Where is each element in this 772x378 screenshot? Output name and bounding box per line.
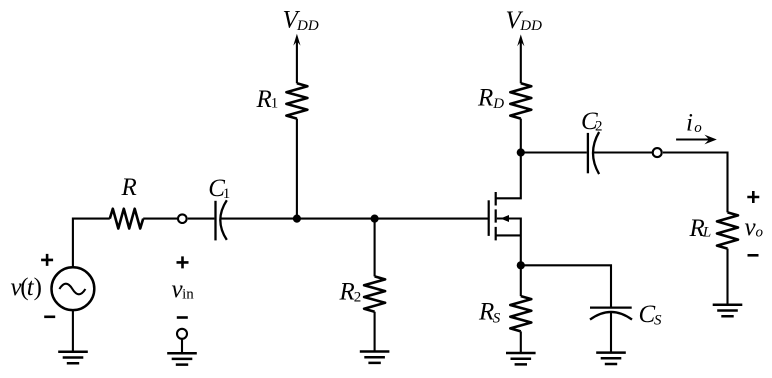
arrowhead VDD left (293, 34, 300, 46)
source v(t) sine (59, 284, 85, 295)
wire: source node to RS (520, 265, 522, 296)
svg-text:DD: DD (519, 18, 542, 34)
wire: source node to CS (521, 265, 611, 306)
wire: CS to ground (610, 313, 612, 353)
wire: R2 to ground (374, 312, 376, 352)
wire: VDD arrow to RD (520, 40, 522, 83)
node: input open terminal (178, 214, 187, 223)
node B junction dot (371, 215, 379, 223)
wire: R1 to node A (296, 119, 298, 219)
ground: under CS (596, 353, 626, 364)
svg-text:): ) (34, 274, 42, 301)
svg-text:o: o (694, 120, 702, 136)
plus sign at vin (177, 256, 189, 268)
svg-text:D: D (492, 96, 504, 112)
wire: vin terminal stem (181, 339, 183, 353)
wire: C2 to output terminal (592, 151, 652, 153)
svg-text:S: S (493, 311, 501, 327)
svg-text:R: R (477, 85, 493, 112)
wire: terminal to C1 (188, 218, 215, 220)
svg-text:1: 1 (271, 96, 279, 112)
source v(t) circle (52, 267, 95, 310)
svg-text:2: 2 (595, 119, 603, 135)
wire: RD to drain node (520, 119, 522, 153)
wire: RS to ground (520, 331, 522, 353)
wire: R to input terminal (143, 218, 177, 220)
svg-text:o: o (756, 224, 764, 240)
ground: under v(t) (58, 352, 88, 363)
svg-text:R: R (121, 174, 137, 201)
wire: source bottom to ground (72, 310, 74, 351)
node: output open terminal (653, 148, 662, 157)
wire: drain node to MOSFET drain (496, 153, 521, 199)
svg-text:R: R (256, 86, 272, 113)
transistor M1 gate bar (488, 200, 490, 236)
drain node junction dot (517, 148, 525, 156)
resistor R (110, 209, 143, 229)
resistor RL (717, 212, 738, 248)
resistor RD (510, 83, 531, 118)
minus sign at vin (177, 316, 188, 319)
svg-text:S: S (654, 313, 662, 329)
capacitor C2 (587, 133, 589, 173)
wire: C1 to gate (221, 218, 489, 220)
ground: under vin (167, 353, 197, 364)
svg-text:in: in (182, 286, 194, 302)
wire: drain node to C2 (521, 151, 587, 153)
transistor M1 channel segments (495, 192, 497, 240)
svg-text:1: 1 (223, 186, 231, 202)
resistor R1 (286, 83, 307, 118)
resistor RS (510, 296, 531, 331)
wire: source top to R left (73, 219, 110, 267)
node A junction dot (293, 215, 301, 223)
wire: RL to ground (726, 249, 728, 305)
svg-text:DD: DD (296, 18, 319, 34)
arrowhead VDD right (517, 34, 524, 46)
ground: under RL (713, 305, 743, 316)
source node junction dot (517, 261, 525, 269)
capacitor C1 (214, 201, 216, 241)
wire: node B to R2 (374, 219, 376, 277)
capacitor CS (590, 306, 632, 308)
ground: under RS (506, 353, 536, 364)
svg-text:L: L (702, 225, 711, 241)
minus sign at v(t) (44, 315, 55, 318)
svg-text:C: C (639, 301, 656, 328)
wire: VDD arrow to R1 (296, 40, 298, 84)
ground: under R2 (360, 352, 390, 363)
plus sign at RL (747, 191, 759, 203)
arrow line io (676, 138, 710, 140)
wire: terminal to RL (663, 153, 728, 213)
svg-text:R: R (339, 279, 355, 306)
minus sign at RL (748, 254, 759, 257)
svg-text:i: i (686, 110, 693, 137)
resistor R2 (364, 276, 385, 311)
arrowhead MOSFET body (500, 215, 509, 222)
wire: MOSFET body and source leads (496, 219, 521, 266)
svg-text:2: 2 (354, 289, 362, 305)
arrowhead io (704, 135, 716, 145)
terminal: vin ground circle (177, 329, 187, 339)
plus sign at v(t) (41, 254, 53, 266)
